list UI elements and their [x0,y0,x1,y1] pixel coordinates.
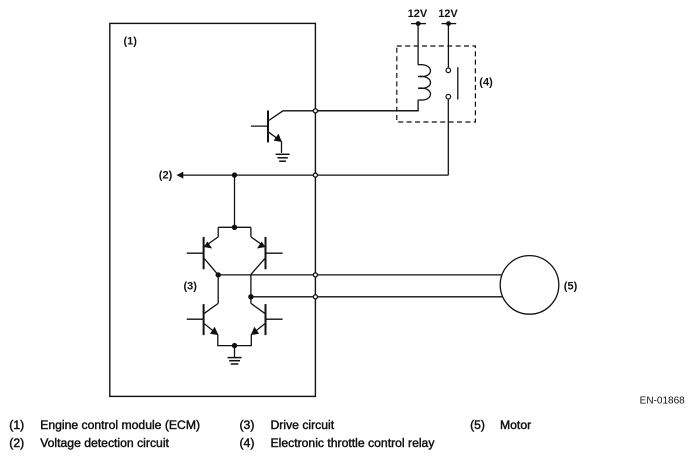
label (2) [159,170,173,182]
svg-text:Electronic throttle control re: Electronic throttle control relay [271,436,436,450]
svg-text:EN-01868: EN-01868 [640,396,685,407]
wire: motor lead A [218,274,502,276]
svg-text:(4): (4) [479,77,493,89]
ECM box (1) [110,23,316,396]
12V supply terminal 1 [408,8,428,65]
svg-text:Voltage detection circuit: Voltage detection circuit [40,436,169,450]
label (4) [479,77,493,89]
transistor Q4 bottom-left [187,303,235,345]
legend item 1 [9,418,200,432]
relay switch contacts [446,67,458,99]
pin P2 on ECM edge [313,173,317,177]
ground for Q1 [276,154,290,161]
svg-text:(2): (2) [159,170,173,182]
svg-text:Drive circuit: Drive circuit [271,418,335,432]
legend item 2 [9,436,169,450]
transistor Q3 top-right [251,227,283,296]
label (1) [124,36,138,48]
svg-text:(1): (1) [9,418,24,432]
legend item 3 [240,418,335,432]
relay coil L1 [315,65,430,111]
relay box (4) dashed [397,46,476,122]
svg-text:(5): (5) [470,418,485,432]
wire: motor lead B [251,296,503,298]
pin P4 on ECM edge [313,295,317,299]
junction node 2 [232,172,237,177]
legend item 4 [240,436,436,450]
label (5) [564,281,578,293]
svg-text:Motor: Motor [500,418,531,432]
svg-text:(2): (2) [9,436,24,450]
junction top of H-bridge [218,225,251,230]
junction node A [216,272,221,303]
figure number EN-01868 [640,396,685,407]
ground for H-bridge [228,346,242,364]
svg-text:Engine control module (ECM): Engine control module (ECM) [40,418,200,432]
svg-text:12V: 12V [438,8,458,20]
transistor Q1 [251,111,282,154]
svg-text:(4): (4) [240,436,255,450]
transistor Q2 top-left [187,227,218,275]
12V supply terminal 2 [438,8,458,67]
wire: node (2) horizontal line [177,172,449,179]
svg-text:(1): (1) [124,36,138,48]
wire: Q1 collector to relay coil [268,111,418,121]
label (3) [184,281,198,293]
transistor Q5 bottom-right [235,297,283,346]
wire: relay switch to node 2 [447,100,449,176]
pin P3 on ECM edge [313,273,317,277]
svg-text:(3): (3) [184,281,198,293]
motor M (5) [500,256,559,315]
svg-text:12V: 12V [408,8,428,20]
svg-text:(5): (5) [564,281,578,293]
junction bottom of H-bridge [232,343,237,348]
legend item 5 [470,418,531,432]
wire: H-bridge supply from node 2 [234,175,236,227]
pin P1 on ECM edge [313,109,317,113]
junction node B [248,294,253,299]
svg-text:(3): (3) [240,418,255,432]
